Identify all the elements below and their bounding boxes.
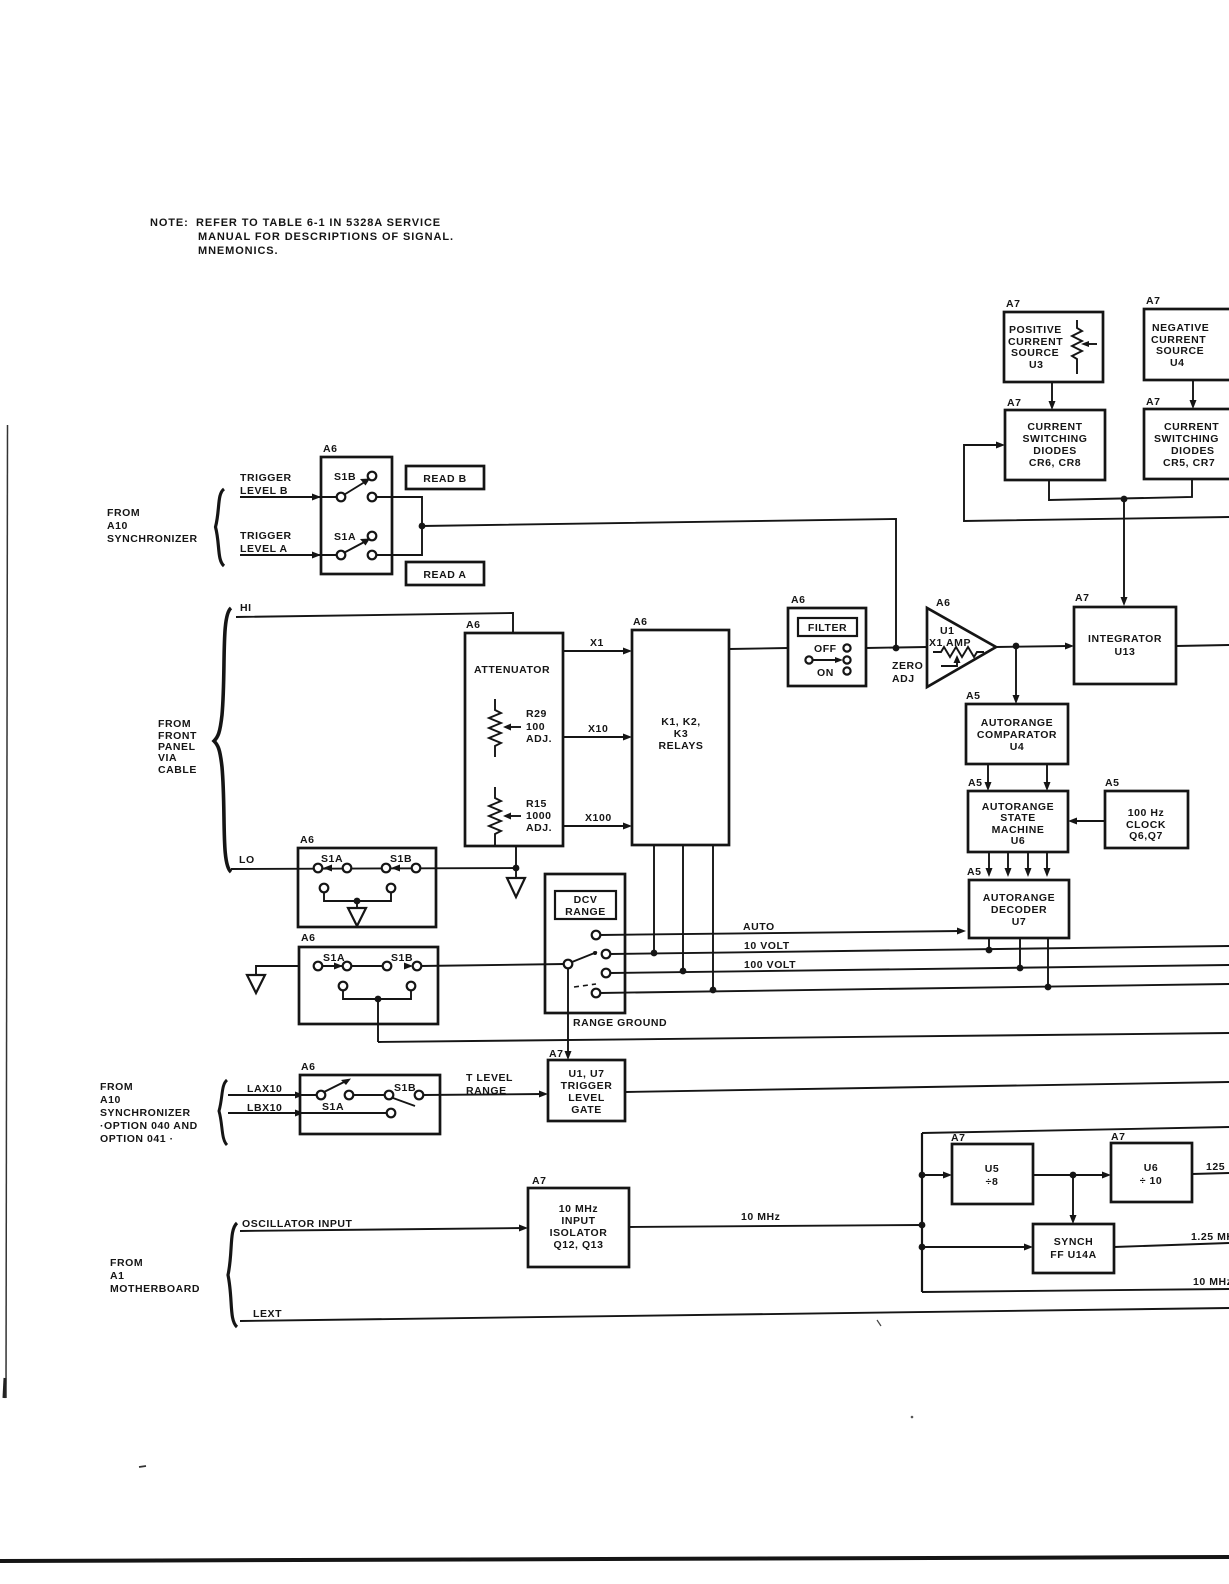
svg-text:LAX10: LAX10 (247, 1083, 282, 1095)
ground below LO junction (507, 868, 525, 897)
svg-text:RANGE: RANGE (565, 906, 606, 918)
svg-text:RELAYS: RELAYS (659, 740, 704, 752)
wire 10 MHz to clock bus (629, 1211, 922, 1227)
svg-text:A5: A5 (966, 690, 981, 702)
svg-text:R15: R15 (526, 798, 547, 810)
svg-text:MNEMONICS.: MNEMONICS. (198, 245, 279, 257)
wire junction down to comparator with arrow (1013, 646, 1020, 704)
wire through second switch box to DCV common (322, 964, 564, 966)
wire relays pin 3 down to range line (712, 845, 714, 990)
svg-text:A5: A5 (968, 777, 983, 789)
feed wire from right edge into CR6/CR8 with arrow (964, 442, 1229, 522)
svg-text:LO: LO (239, 854, 255, 866)
brace for A1 motherboard inputs (228, 1223, 237, 1327)
svg-text:HI: HI (240, 602, 252, 614)
svg-text:FILTER: FILTER (808, 622, 847, 634)
T LEVEL RANGE label (466, 1072, 513, 1097)
svg-text:S1B: S1B (390, 853, 412, 865)
svg-text:1.25 MHz: 1.25 MHz (1191, 1231, 1229, 1243)
stray mark (911, 1416, 914, 1419)
svg-text:ADJ.: ADJ. (526, 733, 552, 745)
svg-text:TRIGGER: TRIGGER (240, 472, 292, 484)
svg-text:SYNCHRONIZER: SYNCHRONIZER (100, 1107, 191, 1119)
note text (150, 217, 454, 257)
page left crease line (6, 425, 8, 1398)
svg-text:A6: A6 (301, 932, 316, 944)
svg-text:VIA: VIA (158, 752, 177, 764)
wire synch FF output with 1.25 MHz label (1114, 1231, 1229, 1247)
svg-text:U7: U7 (1012, 916, 1027, 928)
node amp output junction (1013, 643, 1020, 650)
svg-text:CURRENT: CURRENT (1164, 421, 1219, 433)
svg-text:FROM: FROM (107, 507, 140, 519)
switch S1A contacts on LO line (314, 864, 352, 873)
svg-text:T LEVEL: T LEVEL (466, 1072, 513, 1084)
switch box A6 (trigger level) (321, 443, 392, 574)
clock distribution bus (921, 1133, 923, 1292)
negative current source U4 (clipped at right edge) (1144, 295, 1229, 380)
svg-text:A7: A7 (1006, 298, 1021, 310)
wire X100 attenuator to relays (563, 812, 632, 830)
wire trigger level B with arrow (240, 494, 337, 501)
svg-text:X100: X100 (585, 812, 612, 824)
svg-text:ISOLATOR: ISOLATOR (550, 1227, 608, 1239)
autorange comparator U4 A5 (966, 690, 1068, 764)
svg-text:NOTE:: NOTE: (150, 217, 189, 229)
svg-text:RANGE GROUND: RANGE GROUND (573, 1017, 667, 1029)
AUTO wire to decoder with arrow (600, 921, 966, 935)
svg-text:A6: A6 (466, 619, 481, 631)
wire attenuator bottom to LO junction (515, 846, 517, 868)
svg-text:10 VOLT: 10 VOLT (744, 940, 790, 952)
wire switch box to trigger level gate with arrow (423, 1091, 548, 1098)
svg-text:X10: X10 (588, 723, 608, 735)
svg-text:FROM: FROM (110, 1257, 143, 1269)
stray mark (877, 1320, 881, 1326)
svg-text:A6: A6 (300, 834, 315, 846)
potentiometer inside U3 (1072, 320, 1097, 374)
potentiometer R29 100 ADJ (489, 699, 552, 757)
svg-text:A7: A7 (1146, 396, 1161, 408)
top rail wire to right edge (922, 1127, 1229, 1133)
svg-text:DIODES: DIODES (1171, 445, 1215, 457)
filter ON contact (817, 667, 851, 679)
node bus top junction to U5 (919, 1172, 926, 1179)
svg-text:LEVEL: LEVEL (568, 1092, 605, 1104)
svg-text:CR5, CR7: CR5, CR7 (1163, 457, 1215, 469)
long wire from trigger junction to zero-adj node (422, 519, 896, 648)
TRIGGER LEVEL B label (240, 472, 292, 497)
DCV range switch box (545, 874, 625, 1013)
wire bus to synch FF with arrow (922, 1244, 1033, 1251)
wire integrator output to right edge (1176, 645, 1229, 646)
wire X1 attenuator to relays (563, 637, 632, 655)
wire LEXT to right edge (240, 1308, 1229, 1321)
wire decoder pin to 100 volt line (1019, 938, 1021, 968)
wire decoder pin to range line (1047, 938, 1049, 987)
svg-text:CURRENT: CURRENT (1027, 421, 1082, 433)
wire U5 output down to synch FF with arrow (1070, 1175, 1077, 1224)
FROM A1 MOTHERBOARD label (110, 1257, 200, 1295)
switch S1B (trigger) (334, 471, 376, 501)
svg-text:MANUAL FOR DESCRIPTIONS OF SIG: MANUAL FOR DESCRIPTIONS OF SIGNAL. (198, 231, 454, 243)
svg-text:K3: K3 (674, 728, 689, 740)
svg-text:R29: R29 (526, 708, 547, 720)
brace for LAX10/LBX10 inputs (219, 1080, 227, 1145)
svg-text:LEVEL A: LEVEL A (240, 543, 288, 555)
svg-text:S1A: S1A (334, 531, 356, 543)
wire decoder pin to 10 volt line (988, 938, 990, 950)
wire HI to attenuator top (236, 613, 513, 633)
switch S1A contacts (second box) (314, 962, 352, 971)
svg-text:125 kHz: 125 kHz (1206, 1161, 1229, 1173)
svg-text:CABLE: CABLE (158, 764, 197, 776)
svg-text:A1: A1 (110, 1270, 125, 1282)
divider U6 ÷10 A7 (1111, 1131, 1192, 1202)
svg-text:S1B: S1B (391, 952, 413, 964)
DCV contact AUTO (592, 931, 601, 940)
FROM A10 SYNCHRONIZER label (107, 507, 198, 545)
wire from second switch box to left ground (256, 966, 299, 975)
switch S1B contacts (second box) (383, 962, 422, 971)
svg-text:INTEGRATOR: INTEGRATOR (1088, 633, 1162, 645)
wire U4 to CR5/CR7 with arrow (1190, 380, 1197, 409)
grounded contacts of second switch box (339, 982, 416, 999)
svg-text:A7: A7 (549, 1048, 564, 1060)
DCV contact 100 volt (602, 969, 611, 978)
svg-text:A7: A7 (951, 1132, 966, 1144)
svg-text:10 MHz: 10 MHz (741, 1211, 780, 1223)
positive current source U3 (1004, 298, 1103, 382)
svg-text:10 MHz: 10 MHz (1193, 1276, 1229, 1288)
svg-text:ADJ: ADJ (892, 673, 915, 685)
relays box K1 K2 K3 A6 (632, 616, 729, 845)
wire CR6/CR8 and CR5/CR7 bottoms to junction (1049, 479, 1192, 500)
svg-text:X1 AMP: X1 AMP (929, 637, 971, 649)
svg-text:A6: A6 (323, 443, 338, 455)
wire amp output to integrator with arrow (996, 643, 1074, 650)
svg-text:GATE: GATE (571, 1104, 602, 1116)
node decoder range junction (1045, 984, 1052, 991)
synch FF U14A box (1033, 1224, 1114, 1273)
10 VOLT wire to right edge (610, 940, 1229, 954)
svg-text:S1A: S1A (321, 853, 343, 865)
op-amp U1 X1 AMP (927, 597, 996, 687)
svg-text:ON: ON (817, 667, 834, 679)
svg-text:A6: A6 (936, 597, 951, 609)
range wire to right edge (600, 984, 1229, 993)
svg-text:SOURCE: SOURCE (1011, 347, 1059, 359)
divider U5 ÷8 A7 (951, 1132, 1033, 1204)
svg-text:AUTO: AUTO (743, 921, 775, 933)
switch S1A blade (LAX10) (317, 1079, 354, 1100)
wire junction down to integrator with arrow (1121, 499, 1128, 606)
wire bus to U5 with arrow (922, 1172, 952, 1179)
zero-adj potentiometer inside amp (933, 647, 984, 666)
node ground bar junction (354, 898, 361, 905)
page left crease blob (4, 1378, 5, 1398)
svg-text:LEVEL B: LEVEL B (240, 485, 288, 497)
svg-text:100 VOLT: 100 VOLT (744, 959, 796, 971)
node decoder 10 volt junction (986, 947, 993, 954)
TRIGGER LEVEL A label (240, 530, 292, 555)
wire U6 output to right edge with 125 kHz label (1192, 1161, 1229, 1174)
svg-text:U5: U5 (985, 1163, 1000, 1175)
wire relays X1 output to filter (729, 648, 788, 649)
wire ground bar down to range-ground bus (377, 999, 379, 1042)
FROM FRONT PANEL VIA CABLE label (158, 718, 197, 776)
ZERO ADJ label (892, 660, 923, 685)
svg-text:100: 100 (526, 721, 545, 733)
svg-text:A6: A6 (301, 1061, 316, 1073)
svg-text:A7: A7 (1007, 397, 1022, 409)
range-ground bus wire to right edge (378, 1033, 1229, 1042)
switch box A6 (LAX10 S1A/S1B) (300, 1061, 440, 1134)
svg-text:U6: U6 (1144, 1162, 1159, 1174)
filter box A6 (788, 594, 866, 686)
wire LO through switch box to ground node (231, 868, 516, 869)
svg-text:STATE: STATE (1000, 812, 1036, 824)
ground symbol left of second switch box (247, 975, 265, 993)
svg-text:COMPARATOR: COMPARATOR (977, 729, 1057, 741)
svg-text:READ B: READ B (423, 473, 467, 485)
node decoder 100 volt junction (1017, 965, 1024, 972)
switch box A6 (second S1A/S1B) (299, 932, 438, 1024)
DCV dashed blade to 100 volt contact (574, 984, 596, 987)
wires comparator to state machine with arrows (985, 764, 1051, 791)
svg-text:CR6, CR8: CR6, CR8 (1029, 457, 1081, 469)
svg-text:REFER TO TABLE 6-1 IN 5328A SE: REFER TO TABLE 6-1 IN 5328A SERVICE (196, 217, 441, 229)
wire U3 to CR6/CR8 with arrow (1049, 382, 1056, 410)
READ B box (406, 466, 484, 489)
svg-text:OPTION 041 ·: OPTION 041 · (100, 1133, 174, 1145)
svg-text:SYNCHRONIZER: SYNCHRONIZER (107, 533, 198, 545)
node junction of S1A/S1B outputs (419, 523, 426, 530)
wire LBX10 with arrow (228, 1109, 395, 1118)
node LO junction (513, 865, 520, 872)
READ A box (406, 562, 484, 585)
svg-text:S1A: S1A (323, 952, 345, 964)
svg-text:U4: U4 (1170, 357, 1185, 369)
integrator box U13 A7 (1074, 592, 1176, 684)
svg-text:Q6,Q7: Q6,Q7 (1129, 830, 1163, 842)
svg-text:ZERO: ZERO (892, 660, 923, 672)
svg-text:S1A: S1A (322, 1101, 344, 1113)
node bus 10MHz junction (919, 1222, 926, 1229)
svg-text:U6: U6 (1011, 835, 1026, 847)
svg-text:READ A: READ A (423, 569, 466, 581)
svg-text:ADJ.: ADJ. (526, 822, 552, 834)
svg-text:A6: A6 (791, 594, 806, 606)
brace for A10 synchronizer inputs (216, 489, 225, 566)
svg-text:RANGE: RANGE (466, 1085, 507, 1097)
svg-text:A6: A6 (633, 616, 648, 628)
svg-text:U4: U4 (1010, 741, 1025, 753)
stray mark (139, 1466, 146, 1467)
wire clock to state machine with arrow (1068, 818, 1105, 825)
autorange state machine U6 A5 (968, 777, 1068, 852)
svg-text:FROM: FROM (100, 1081, 133, 1093)
node relays pin1 on 10 volt line (651, 950, 658, 957)
svg-text:SOURCE: SOURCE (1156, 345, 1204, 357)
attenuator box A6 (465, 619, 563, 846)
svg-text:ATTENUATOR: ATTENUATOR (474, 664, 550, 676)
wires from switch contacts to junction (377, 497, 423, 555)
DCV contact range ground (592, 989, 601, 998)
wire X10 attenuator to relays (563, 723, 632, 741)
node U5 output junction (1070, 1172, 1077, 1179)
svg-text:K1, K2,: K1, K2, (661, 716, 700, 728)
svg-text:A7: A7 (1146, 295, 1161, 307)
wire trigger level A with arrow (240, 552, 337, 559)
svg-text:100 Hz: 100 Hz (1128, 807, 1165, 819)
filter switch blade (805, 656, 850, 663)
100 Hz clock Q6,Q7 A5 (1105, 777, 1188, 848)
bottom rail wire with 10 MHz label (922, 1276, 1229, 1292)
DCV switch common contact (564, 960, 573, 969)
node relays pin3 on range line (710, 987, 717, 994)
svg-text:NEGATIVE: NEGATIVE (1152, 322, 1209, 334)
node zero-adj junction (893, 645, 900, 652)
svg-text:÷ 10: ÷ 10 (1140, 1175, 1163, 1187)
wire oscillator input with arrow (240, 1225, 528, 1232)
svg-text:U1: U1 (940, 625, 955, 637)
svg-text:U13: U13 (1115, 646, 1136, 658)
svg-text:SYNCH: SYNCH (1054, 1236, 1094, 1248)
svg-text:S1B: S1B (334, 471, 356, 483)
svg-text:POSITIVE: POSITIVE (1009, 324, 1062, 336)
filter OFF contact (814, 643, 851, 655)
svg-text:FROM: FROM (158, 718, 191, 730)
svg-text:AUTORANGE: AUTORANGE (981, 717, 1053, 729)
ground symbol in LO switch box (348, 901, 366, 926)
svg-text:·OPTION 040 AND: ·OPTION 040 AND (100, 1120, 198, 1132)
brace for front panel inputs (214, 608, 231, 872)
svg-text:SWITCHING: SWITCHING (1022, 433, 1087, 445)
svg-text:DIODES: DIODES (1033, 445, 1077, 457)
svg-text:A7: A7 (1075, 592, 1090, 604)
svg-text:TRIGGER: TRIGGER (561, 1080, 613, 1092)
wire U5 to U6 with arrow (1033, 1172, 1111, 1179)
wire relays pin 2 down to 100 volt line (682, 845, 684, 971)
page bottom border (0, 1557, 1229, 1561)
svg-text:TRIGGER: TRIGGER (240, 530, 292, 542)
DCV contact 10 volt (602, 950, 611, 959)
100 VOLT wire to right edge (610, 959, 1229, 973)
svg-text:DCV: DCV (574, 894, 598, 906)
node bus synch junction (919, 1244, 926, 1251)
svg-text:MOTHERBOARD: MOTHERBOARD (110, 1283, 200, 1295)
svg-text:10 MHz: 10 MHz (559, 1203, 598, 1215)
svg-text:1000: 1000 (526, 810, 552, 822)
svg-text:INPUT: INPUT (561, 1215, 595, 1227)
svg-text:SWITCHING: SWITCHING (1154, 433, 1219, 445)
node second ground bar junction (375, 996, 382, 1003)
switch box A6 (LO line S1A/S1B) (298, 834, 436, 927)
switch S1B contacts on LO line (382, 864, 421, 873)
current switching diodes CR5, CR7 (clipped at right edge) (1144, 396, 1229, 479)
FROM A10 SYNCHRONIZER OPTION label (100, 1081, 198, 1145)
wire LAX10 with arrow (228, 1092, 317, 1099)
svg-text:A7: A7 (532, 1175, 547, 1187)
svg-text:LEXT: LEXT (253, 1308, 282, 1320)
svg-text:U1, U7: U1, U7 (569, 1068, 605, 1080)
wire filter output to amp input (866, 647, 927, 648)
svg-text:A5: A5 (1105, 777, 1120, 789)
svg-text:÷8: ÷8 (986, 1176, 999, 1188)
node junction below diodes (1121, 496, 1128, 503)
switch S1A (trigger) (334, 531, 376, 559)
autorange decoder U7 A5 (967, 866, 1069, 938)
wires state machine to decoder with arrows (986, 852, 1051, 877)
svg-text:X1: X1 (590, 637, 604, 649)
current switching diodes CR6, CR8 (1005, 397, 1105, 480)
node relays pin2 on 100 volt line (680, 968, 687, 975)
svg-text:A10: A10 (107, 520, 128, 532)
potentiometer R15 1000 ADJ (489, 787, 552, 845)
switch S1B blade (LAX10) (353, 1091, 423, 1106)
svg-text:A5: A5 (967, 866, 982, 878)
wire gate output to right edge (625, 1082, 1229, 1092)
svg-text:DECODER: DECODER (991, 904, 1047, 916)
trigger level gate box U1,U7 A7 (548, 1048, 625, 1121)
svg-text:OFF: OFF (814, 643, 837, 655)
svg-text:OSCILLATOR INPUT: OSCILLATOR INPUT (242, 1218, 353, 1230)
wire relays pin 1 down to 10 volt line (653, 845, 655, 953)
wire DCV common down to trigger level gate with arrow (565, 968, 572, 1060)
svg-text:FF U14A: FF U14A (1050, 1249, 1096, 1261)
10 MHz input isolator box Q12,Q13 A7 (528, 1175, 629, 1267)
svg-text:A7: A7 (1111, 1131, 1126, 1143)
svg-text:AUTORANGE: AUTORANGE (983, 892, 1055, 904)
svg-text:Q12, Q13: Q12, Q13 (554, 1239, 604, 1251)
DCV switch blade to 10 volt contact (572, 951, 597, 962)
svg-text:S1B: S1B (394, 1082, 416, 1094)
grounded contacts of LO switch box (320, 884, 396, 901)
svg-text:U3: U3 (1029, 359, 1044, 371)
svg-text:A10: A10 (100, 1094, 121, 1106)
